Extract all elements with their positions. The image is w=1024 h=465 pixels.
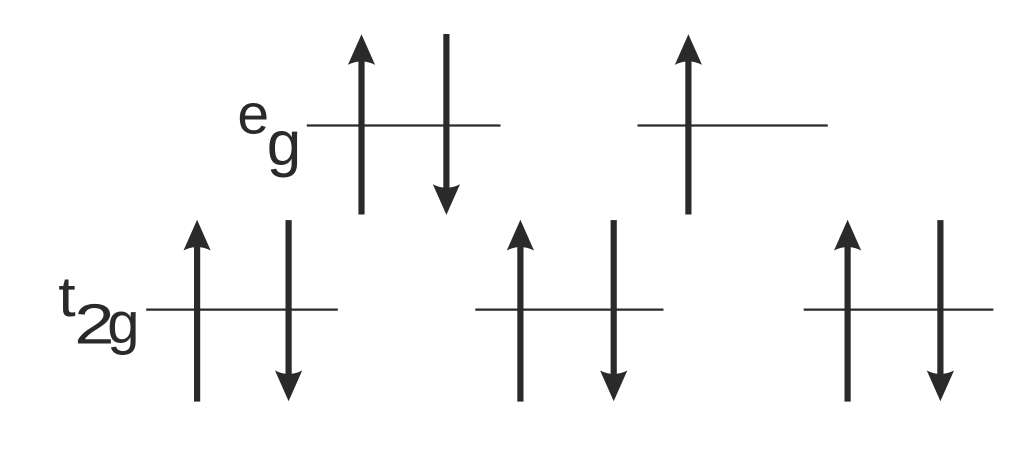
e_g orbital level line 2 (638, 124, 828, 126)
spin-up electron arrow on e_g level 1 (348, 34, 375, 214)
spin-down electron arrow on t_2g level 3 (927, 220, 954, 401)
t_2g orbital level line 3 (804, 308, 994, 310)
svg-text:g: g (107, 291, 139, 356)
e_g orbital level line 1 (307, 124, 501, 126)
spin-down electron arrow on t_2g level 1 (275, 220, 302, 401)
svg-text:g: g (267, 109, 301, 178)
t_2g orbital level line 2 (475, 308, 663, 310)
spin-down electron arrow on e_g level 1 (433, 34, 460, 215)
label e_g (237, 83, 301, 179)
svg-text:e: e (237, 83, 269, 147)
spin-up electron arrow on t_2g level 2 (507, 220, 534, 402)
t_2g orbital level line 1 (146, 308, 338, 310)
spin-down electron arrow on t_2g level 2 (600, 220, 627, 401)
spin-up electron arrow on t_2g level 3 (834, 220, 861, 402)
spin-up electron arrow on t_2g level 1 (184, 220, 211, 402)
label t_2g (58, 264, 139, 355)
spin-up electron arrow on e_g level 2 (675, 34, 702, 214)
